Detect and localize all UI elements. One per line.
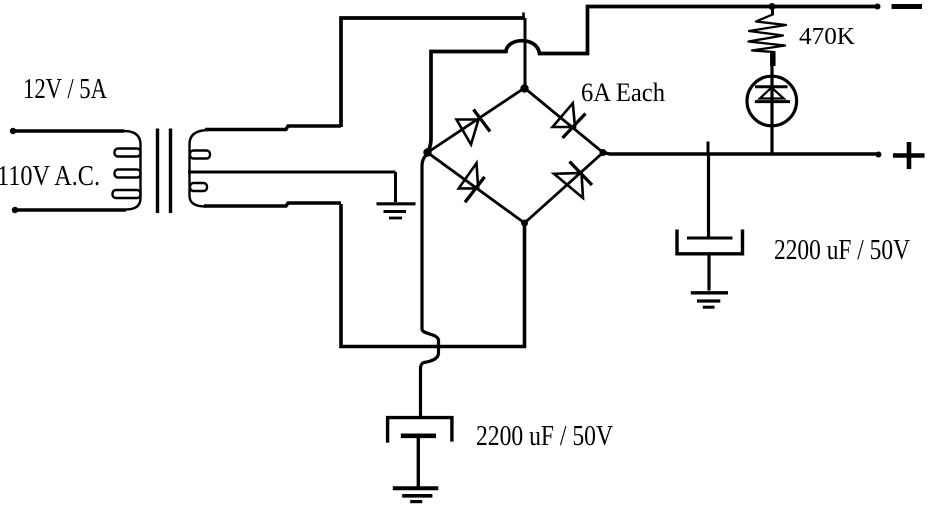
wire secondary bottom lead <box>204 203 341 206</box>
ground (C1) <box>691 293 728 307</box>
LED lamp <box>747 76 797 126</box>
wire drop to bridge top node <box>524 18 527 87</box>
svg-text:6A Each: 6A Each <box>581 78 665 107</box>
wire plus rail to C1 <box>707 154 710 238</box>
resistor R1 470K <box>749 7 787 67</box>
wire minus rail (left node up, over hop, to minus terminal) <box>428 7 878 152</box>
capacitor C1 bottom cup <box>677 230 743 254</box>
LED wire <box>770 66 773 153</box>
svg-text:12V / 5A: 12V / 5A <box>23 74 108 105</box>
terminal dot primary bottom <box>12 207 18 213</box>
wire primary bottom lead <box>15 208 126 211</box>
capacitor C1 top plate <box>687 237 733 240</box>
svg-text:2200 uF / 50V: 2200 uF / 50V <box>476 421 613 452</box>
wire primary top lead <box>13 129 124 132</box>
diode D1 top-left <box>457 110 491 145</box>
node left (minus) <box>423 148 431 156</box>
wire secondary bottom to bridge bottom node <box>341 204 525 347</box>
wire stub at top corner <box>522 13 525 19</box>
wire secondary center tap <box>188 171 396 174</box>
wire C2 to ground <box>417 436 420 488</box>
node bottom (AC) <box>521 220 528 227</box>
transformer T1 core <box>158 129 171 214</box>
diode D4 bottom-right <box>554 162 592 199</box>
diode D3 bottom-left <box>459 163 485 202</box>
wire C1 to ground <box>707 254 710 291</box>
minus sign <box>892 4 923 9</box>
wire secondary top to bridge AC1 (up and across) <box>341 18 525 127</box>
ground (C2) <box>393 488 439 501</box>
transformer T1 secondary winding <box>190 130 211 207</box>
capacitor C2 bottom plate <box>401 433 436 438</box>
diode D2 top-right <box>553 103 586 138</box>
wire center tap drop <box>394 172 397 202</box>
terminal dot plus <box>876 152 882 158</box>
terminal dot minus <box>875 4 881 10</box>
wire plus rail <box>603 153 879 155</box>
node right (plus) <box>600 149 607 156</box>
wire left node down to C2 with hop <box>421 154 439 418</box>
svg-text:470K: 470K <box>799 24 856 50</box>
svg-text:2200 uF / 50V: 2200 uF / 50V <box>774 235 910 266</box>
junction dot resistor top <box>769 3 776 10</box>
terminal dot primary top <box>10 128 16 134</box>
transformer T1 primary winding <box>113 131 141 210</box>
svg-text:110V A.C.: 110V A.C. <box>0 161 100 192</box>
bridge rectifier diamond <box>428 88 604 223</box>
wire secondary top lead <box>205 126 341 130</box>
ground (center tap) <box>377 204 416 218</box>
wire stub above C1 junction <box>707 142 710 155</box>
node top (AC) <box>520 84 528 92</box>
plus sign <box>893 142 925 169</box>
capacitor C2 top cup <box>388 418 452 443</box>
